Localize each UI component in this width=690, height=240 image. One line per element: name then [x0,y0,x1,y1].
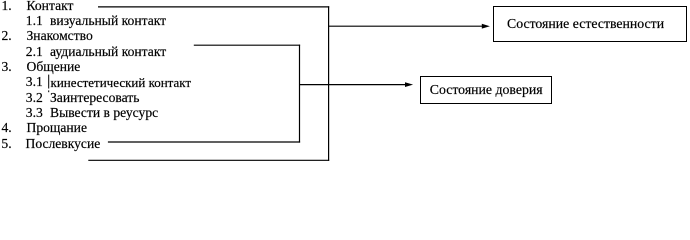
list row 5 Послевкусие [0,149,690,151]
wire A1 horizontal from Контакт [98,6,329,8]
wire A3 bottom horizontal [88,159,329,161]
list row 2.1 аудиальный контакт [0,57,690,59]
wire A4 arrow to box Состояние естественности [329,25,483,27]
wire B3 horizontal from Послевкусие [108,141,300,143]
list row 2 Знакомство [0,42,690,44]
list row 1.1 визуальный контакт [0,27,690,29]
list row 1 Контакт [0,11,690,13]
wire B1 horizontal upper [194,44,300,46]
list row 3.3 Вывести в реусурс [0,119,690,121]
drawn in svg below [0,0,690,165]
wire B4 arrow to box Состояние доверия [300,84,407,86]
list row 3 Общение [0,73,690,75]
node box Состояние естественности [493,6,687,42]
node box Состояние доверия [420,76,553,104]
wire B2 vertical middle bracket [299,45,301,143]
list row 4 Прощание [0,134,690,136]
text cursor artifact row 3.1 [48,75,50,89]
wire A2 vertical right bracket [328,6,330,161]
list row 3.1 кинестетический контакт [0,88,690,90]
list row 3.2 Заинтересовать [0,103,690,105]
